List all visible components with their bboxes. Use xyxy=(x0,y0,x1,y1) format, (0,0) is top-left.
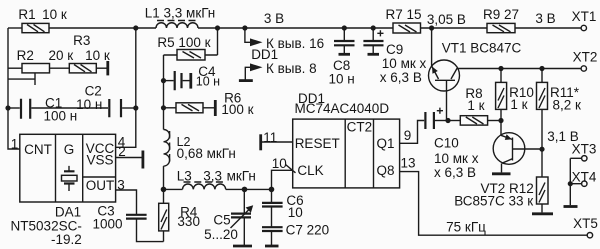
wire R2 wiper jog xyxy=(8,78,35,80)
ground bar VSS xyxy=(141,151,144,169)
ground bar R12 xyxy=(532,212,553,215)
svg-text:10 мк х: 10 мк х xyxy=(434,151,479,166)
resistor R6 xyxy=(176,103,203,113)
wire R4 bottom lead xyxy=(163,231,165,242)
inductor L3 xyxy=(183,182,226,189)
svg-text:10 н: 10 н xyxy=(76,97,102,112)
svg-text:VSS: VSS xyxy=(86,153,113,168)
wire C2 to rail xyxy=(122,107,136,109)
svg-text:MC74AC4040D: MC74AC4040D xyxy=(295,101,390,116)
ground bar C4 xyxy=(189,73,192,89)
svg-text:-19.2: -19.2 xyxy=(51,232,82,247)
resistor R9 xyxy=(487,23,515,32)
crystal symbol inside DA1 xyxy=(62,166,78,191)
svg-text:C9: C9 xyxy=(386,42,403,57)
wire VCC rail (L1 left down to DA1 pin 4) xyxy=(116,28,136,147)
capacitor C4 xyxy=(175,71,182,90)
capacitor C1 xyxy=(21,99,30,119)
svg-text:CLK: CLK xyxy=(297,163,323,178)
svg-text:5...20: 5...20 xyxy=(204,227,238,242)
wire R6 to ground xyxy=(203,107,214,109)
capacitor C6 xyxy=(262,203,283,227)
wire C1 to C2 xyxy=(31,107,108,109)
wire top rail L1 right to R7 xyxy=(198,27,393,29)
svg-text:3 В: 3 В xyxy=(264,11,284,26)
svg-text:L3: L3 xyxy=(177,169,192,184)
resistor R3 xyxy=(69,64,96,73)
svg-text:К выв. 8: К выв. 8 xyxy=(266,61,317,76)
resistor R8 xyxy=(460,116,487,125)
resistor R7 xyxy=(393,23,421,33)
node C5 dot xyxy=(242,187,248,193)
node R8/R10/VT2 dot xyxy=(498,118,503,123)
inductor L2 xyxy=(164,130,170,167)
wire R11 top lead xyxy=(541,69,543,83)
wire R6 left lead xyxy=(164,107,177,109)
node VT1 base dot xyxy=(445,118,450,123)
ground bar VT2 xyxy=(492,172,511,175)
wire XT4 lead xyxy=(570,183,581,185)
svg-text:10 к: 10 к xyxy=(42,7,67,22)
wire VT2 collector to ground xyxy=(501,163,503,172)
svg-text:DD1: DD1 xyxy=(251,47,278,62)
wire tank node to L3 xyxy=(164,188,183,190)
node CLK/C6 junction dot xyxy=(269,187,275,193)
svg-text:Q8: Q8 xyxy=(376,163,394,178)
svg-text:CNT: CNT xyxy=(24,142,52,157)
capacitor C5 (trimmer) xyxy=(231,189,254,246)
terminal XT2 xyxy=(581,66,586,71)
node R6 tap dot xyxy=(161,105,166,110)
ground bar pin 8 xyxy=(239,79,253,82)
svg-text:L1 3,3 мкГн: L1 3,3 мкГн xyxy=(145,5,215,20)
wire R5 leads xyxy=(164,54,218,56)
ground bar R3 xyxy=(106,61,109,75)
svg-text:1: 1 xyxy=(11,137,19,152)
svg-text:1 к: 1 к xyxy=(510,97,527,112)
transistor VT1 xyxy=(429,60,460,91)
svg-text:10 к: 10 к xyxy=(85,48,110,63)
svg-text:10 н: 10 н xyxy=(196,75,220,89)
wire top rail left segment xyxy=(8,27,22,29)
node C2 rail dot xyxy=(133,105,138,110)
svg-text:XT5: XT5 xyxy=(573,216,598,231)
svg-text:10: 10 xyxy=(272,156,287,171)
svg-text:3,05 В: 3,05 В xyxy=(427,12,466,27)
svg-text:10 н: 10 н xyxy=(329,71,355,86)
svg-text:OUT: OUT xyxy=(86,178,115,193)
wire VT1 emitter riser xyxy=(431,28,433,66)
capacitor C3 xyxy=(126,215,147,219)
wire VT2 emitter riser xyxy=(500,121,502,136)
wire R2 left lead xyxy=(8,67,22,69)
svg-text:R5 100 к: R5 100 к xyxy=(157,35,210,50)
node L1 left dot xyxy=(133,25,138,30)
chip DA1 box xyxy=(20,134,116,202)
svg-text:ВС857С 33 к: ВС857С 33 к xyxy=(454,194,533,209)
svg-text:100 к: 100 к xyxy=(221,102,253,117)
resistor R4 xyxy=(159,203,169,231)
wire to R8 xyxy=(448,120,460,122)
svg-text:10: 10 xyxy=(288,205,303,220)
node R10 top dot xyxy=(498,66,503,71)
wire C4 to ground xyxy=(183,80,190,82)
svg-text:C7 220: C7 220 xyxy=(286,222,330,237)
svg-text:8,2 к: 8,2 к xyxy=(552,98,581,113)
node XT4 junction dot xyxy=(568,181,573,186)
wire R10 top lead xyxy=(500,69,502,83)
svg-text:х 6,3 В: х 6,3 В xyxy=(434,165,476,180)
node C8 dot xyxy=(342,25,347,30)
svg-text:XT4: XT4 xyxy=(572,169,597,184)
capacitor C7 xyxy=(262,227,283,246)
svg-text:1000: 1000 xyxy=(92,217,122,232)
svg-text:R2: R2 xyxy=(17,48,34,63)
terminal XT1 xyxy=(581,25,586,30)
svg-text:VT1 BC847C: VT1 BC847C xyxy=(442,41,522,56)
svg-text:C5: C5 xyxy=(213,213,230,228)
wire DD1 pin 10 (CLK) xyxy=(272,170,293,203)
wire top rail R1 to L1 xyxy=(49,27,156,29)
wire XT3 lead xyxy=(570,157,581,159)
svg-text:XT1: XT1 xyxy=(572,9,597,24)
wire C3 bottom to R4 bottom xyxy=(137,219,164,242)
svg-text:20 к: 20 к xyxy=(48,48,73,63)
wire top rail R9 to XT1 xyxy=(515,27,581,29)
capacitor C10 (polar) xyxy=(425,108,443,129)
svg-text:Q1: Q1 xyxy=(376,136,394,151)
node C4 tap dot xyxy=(161,78,166,83)
node L1 right dot xyxy=(215,25,220,30)
wire L2 bottom lead xyxy=(163,166,165,189)
wire VT1 base xyxy=(446,80,448,120)
svg-text:3 В: 3 В xyxy=(535,11,555,26)
svg-text:75 кГц: 75 кГц xyxy=(446,219,486,234)
svg-text:R9 27: R9 27 xyxy=(483,7,519,22)
node top rail branch dot (3V feed) xyxy=(242,25,247,30)
inductor L1 xyxy=(156,21,198,29)
svg-text:R1: R1 xyxy=(18,7,35,22)
node tank junction dot A xyxy=(161,187,167,193)
terminal XT4 xyxy=(582,181,587,186)
wire left rail xyxy=(8,28,20,149)
svg-text:NT5032SC-: NT5032SC- xyxy=(11,218,82,233)
wire DA1 pin 3 (OUT) xyxy=(116,190,137,214)
node C9 dot xyxy=(371,25,376,30)
arrow to pin 8 xyxy=(250,63,263,71)
capacitor C9 (polar) xyxy=(363,28,383,54)
wire tank rail (R5 down to L2) xyxy=(163,55,165,130)
svg-text:мкГн: мкГн xyxy=(227,169,256,184)
resistor R12 xyxy=(537,177,549,204)
wire top rail R7 to R9 xyxy=(421,27,488,29)
resistor R10 xyxy=(496,82,507,109)
wire DD1 pin 13 (Q8) to XT5 xyxy=(400,172,587,236)
svg-text:G: G xyxy=(64,142,75,157)
wire rail to C1 xyxy=(8,107,20,109)
svg-text:CT2: CT2 xyxy=(347,120,373,135)
wire C5 node to CLK node xyxy=(245,188,272,190)
wire L3 to C5 node xyxy=(226,188,245,190)
svg-text:330: 330 xyxy=(177,214,200,229)
wire XT3/XT4 ground drop xyxy=(569,158,571,205)
svg-text:R3: R3 xyxy=(73,33,90,48)
svg-text:3,3: 3,3 xyxy=(203,169,222,184)
wire to pin 16 arrow stem xyxy=(245,28,250,42)
resistor R11 xyxy=(537,82,548,109)
svg-text:C10: C10 xyxy=(434,136,459,151)
svg-text:10 мк х: 10 мк х xyxy=(382,56,427,71)
svg-text:DA1: DA1 xyxy=(55,205,81,220)
pin 10 leader tick xyxy=(286,165,296,173)
wire DD1 pin 11 (RESET) to ground xyxy=(262,141,293,143)
wire R11 bottom lead xyxy=(541,109,543,177)
node R11 top dot xyxy=(539,66,544,71)
arrow to pin 16 xyxy=(250,38,263,46)
wire DD1 pin 9 to C10 xyxy=(400,121,425,144)
ground bar RESET xyxy=(259,134,262,150)
chip DD1 box xyxy=(293,119,400,188)
node C1 junction dot xyxy=(5,105,10,110)
svg-text:0,68 мкГн: 0,68 мкГн xyxy=(177,146,236,161)
node 3.05V dot xyxy=(429,25,434,30)
node VT2 base dot xyxy=(539,147,544,152)
svg-text:13: 13 xyxy=(400,155,415,170)
svg-text:XT2: XT2 xyxy=(573,50,598,65)
svg-text:XT3: XT3 xyxy=(572,141,597,156)
svg-text:RESET: RESET xyxy=(295,136,340,151)
wire R5 right riser xyxy=(217,28,219,55)
resistor R2 (trimmer) xyxy=(22,64,50,86)
wire pin 8 arrow stem xyxy=(245,67,250,80)
wire DA1 pin 2 (VSS) to ground xyxy=(116,157,142,159)
svg-text:1 к: 1 к xyxy=(467,98,484,113)
svg-text:9: 9 xyxy=(404,128,412,143)
wire R12 bottom to ground xyxy=(541,204,543,212)
wire R8 to node xyxy=(488,120,501,122)
svg-text:R7 15: R7 15 xyxy=(385,7,421,22)
capacitor C2 xyxy=(109,99,121,117)
capacitor C8 xyxy=(334,28,355,54)
wire R3 to ground xyxy=(96,67,106,69)
ground bar R6 xyxy=(214,100,217,116)
resistor R1 xyxy=(22,23,49,32)
wire C10 to base node xyxy=(435,120,448,122)
wire C4 lead xyxy=(164,80,174,82)
ground bar XT3/XT4 xyxy=(564,205,578,208)
resistor R5 xyxy=(177,50,205,61)
wire VT1 collector to XT2 xyxy=(458,68,581,70)
svg-text:11: 11 xyxy=(263,130,277,145)
svg-text:100 н: 100 н xyxy=(44,109,78,124)
transistor VT2 xyxy=(493,133,539,165)
svg-text:х 6,3 В: х 6,3 В xyxy=(380,70,422,85)
wire R4 top lead xyxy=(163,189,165,203)
wire R10 bottom lead xyxy=(500,109,502,120)
wire R2 to R3 xyxy=(50,67,70,69)
terminal XT3 xyxy=(582,156,587,161)
terminal XT5 xyxy=(587,233,592,238)
